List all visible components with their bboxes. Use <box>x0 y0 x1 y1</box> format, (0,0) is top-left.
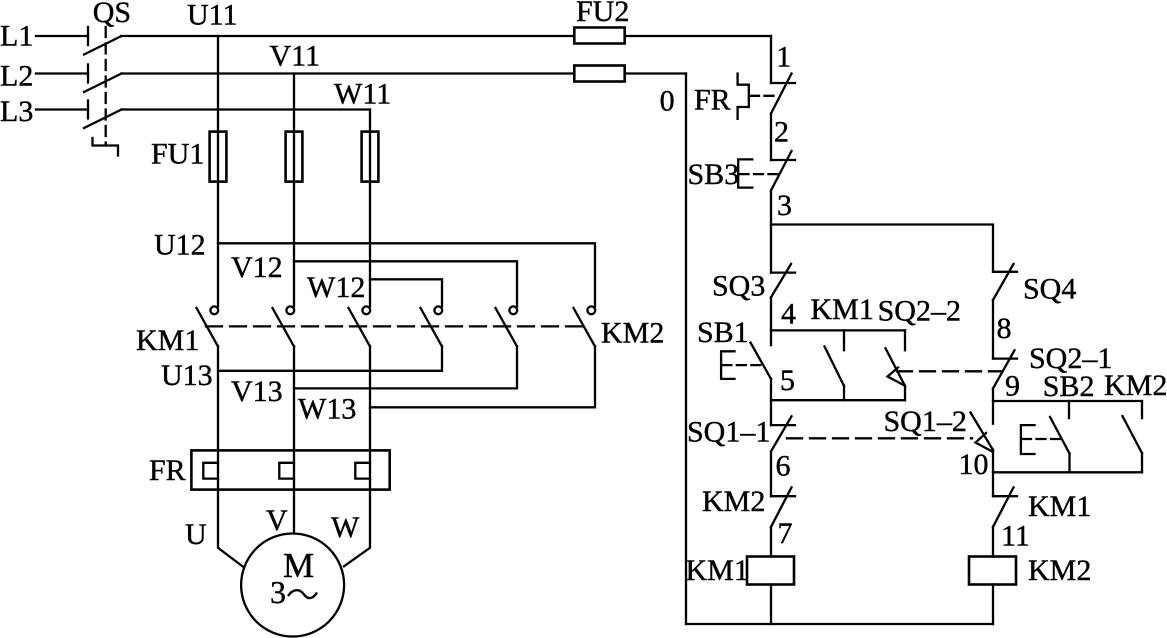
switch SQ1-1 NC blade <box>771 416 792 451</box>
svg-text:5: 5 <box>780 364 795 397</box>
svg-text:KM1: KM1 <box>1028 490 1091 523</box>
svg-text:8: 8 <box>997 312 1012 345</box>
contactor KM1 main contact W blade <box>349 308 371 346</box>
svg-text:KM1: KM1 <box>686 554 749 587</box>
svg-text:FR: FR <box>694 84 731 117</box>
svg-text:FU2: FU2 <box>576 0 629 28</box>
coil KM2 <box>969 557 1016 585</box>
svg-text:U: U <box>185 518 207 551</box>
wire V11 vertical <box>293 74 295 307</box>
svg-text:FR: FR <box>149 454 186 487</box>
wire W11 vertical <box>369 110 371 307</box>
svg-text:0: 0 <box>660 85 675 118</box>
switch SQ2-1 NC blade <box>993 350 1015 388</box>
wire parallel branch top (SB2/KM2) <box>993 400 1142 402</box>
QS pole 2 blade <box>84 74 122 93</box>
wire node 8 rail <box>992 300 994 359</box>
wire parallel branch top (KM1/SQ2-2) <box>771 329 905 331</box>
contact KM2 aux NO blade <box>1123 416 1143 453</box>
wire KM2 coil to bottom rail <box>992 585 994 625</box>
contactor KM2 main contact 4 blade <box>421 308 443 346</box>
switch SQ2-2 bottom wire <box>904 386 906 400</box>
contactor KM2 main contact 6 blade <box>574 308 596 346</box>
svg-text:SQ4: SQ4 <box>1023 273 1076 306</box>
svg-text:9: 9 <box>1005 370 1020 403</box>
contact FR NC fixed bar <box>771 82 795 84</box>
linkage SQ2 dashed <box>897 370 1001 372</box>
wire parallel branch bottom (SB2/KM2) <box>993 471 1142 473</box>
svg-text:L3: L3 <box>0 95 33 128</box>
QS pole 3 blade <box>84 110 122 129</box>
svg-text:V11: V11 <box>270 40 321 73</box>
wire node 4 rail <box>770 297 772 345</box>
wire U12 crossover to KM2 contact 6 <box>218 243 595 306</box>
svg-text:W13: W13 <box>298 393 356 426</box>
button SB3 linkage dashed <box>740 173 779 175</box>
wire node 6 rail <box>770 451 772 496</box>
switch SQ1-2 roller chevron <box>976 433 993 452</box>
contactor KM2 main contact 6 hinge circle <box>587 306 595 314</box>
wire KM1 coil to bottom rail <box>770 585 772 625</box>
QS pole 2 fixed contact tick <box>87 65 89 83</box>
svg-text:6: 6 <box>776 450 791 483</box>
button SB3 actuator <box>738 159 752 187</box>
wire phase V down to motor <box>293 346 295 533</box>
wire node 5 rail <box>770 379 772 425</box>
wire node 10 rail <box>992 450 994 497</box>
svg-text:SQ2–2: SQ2–2 <box>878 295 961 328</box>
fuse FU2 upper <box>625 35 771 37</box>
svg-text:W11: W11 <box>334 78 391 111</box>
switch SQ2-2 blade <box>886 348 906 386</box>
svg-text:SQ1–2: SQ1–2 <box>884 405 967 438</box>
contactor KM1 main contact V blade <box>273 308 295 346</box>
switch SQ2-2 top wire <box>904 330 906 350</box>
svg-text:3: 3 <box>777 189 792 222</box>
FR heater element U <box>203 463 218 479</box>
contact KM1 NC interlock blade <box>993 487 1014 527</box>
svg-text:1: 1 <box>776 41 791 74</box>
wire node0 rail <box>685 74 687 625</box>
svg-text:KM2: KM2 <box>601 317 664 350</box>
wire node 11 rail <box>992 527 994 557</box>
switch SQ3 NC fixed bar <box>771 271 795 273</box>
contactor KM1 main contact U blade <box>197 308 219 346</box>
svg-text:4: 4 <box>781 298 796 331</box>
contactor KM2 main contact 5 blade <box>496 308 518 346</box>
switch SQ1-1 NC fixed bar <box>771 424 795 426</box>
button SB1 linkage dashed <box>722 364 761 366</box>
motor M circle <box>241 534 344 637</box>
wire node 3 rail <box>770 191 772 273</box>
contact KM2 NC interlock blade <box>771 487 792 527</box>
svg-text:L1: L1 <box>0 20 33 53</box>
svg-text:11: 11 <box>1001 520 1030 553</box>
button SB2 actuator <box>1021 425 1035 454</box>
wire phase W down to motor <box>344 346 370 566</box>
thermal relay FR box <box>191 450 389 489</box>
wire U11 vertical <box>217 36 219 307</box>
switch SQ4 NC fixed bar <box>993 271 1017 273</box>
svg-text:7: 7 <box>778 517 793 550</box>
QS pole 1 fixed contact tick <box>87 27 89 45</box>
switch SQ3 NC blade <box>771 264 791 297</box>
wire U13 from KM2 contact 4 <box>218 346 442 370</box>
relay FR heater element symbol (control) <box>738 74 749 119</box>
contact KM1 aux NO bottom wire <box>843 386 845 400</box>
button SB2 NO blade <box>1050 417 1070 454</box>
QS pole 1 blade <box>84 36 122 55</box>
wire node1 rail top corner <box>770 36 772 83</box>
contactor KM1 main contact W hinge circle <box>362 306 370 314</box>
svg-text:SB2: SB2 <box>1043 370 1095 403</box>
wire W12 crossover to KM2 contact 4 <box>370 279 442 306</box>
contactor KM2 main contact 5 hinge circle <box>509 306 517 314</box>
svg-text:3: 3 <box>270 574 286 610</box>
svg-text:10: 10 <box>959 448 989 481</box>
relay FR linkage dashed <box>750 95 778 97</box>
wire L3 incoming <box>36 108 88 110</box>
svg-text:KM2: KM2 <box>1028 554 1091 587</box>
linkage SQ1 dashed <box>787 437 972 439</box>
fuse FU1 phase V <box>286 132 303 182</box>
switch SQ4 NC blade <box>993 264 1014 300</box>
svg-text:QS: QS <box>93 0 131 29</box>
svg-text:L2: L2 <box>0 60 33 93</box>
motor tilde <box>288 590 317 598</box>
wire L1 incoming <box>36 35 88 37</box>
svg-text:FU1: FU1 <box>151 138 204 171</box>
switch SQ2-1 NC fixed bar <box>993 357 1017 359</box>
svg-text:SQ3: SQ3 <box>712 270 765 303</box>
wire node 9 rail <box>992 389 994 424</box>
wire L2 incoming <box>36 72 88 74</box>
svg-text:KM2: KM2 <box>702 485 765 518</box>
FR heater element V <box>279 463 294 479</box>
button SB2 top wire <box>1068 401 1070 418</box>
QS handle <box>93 138 119 156</box>
button SB1 NO blade <box>751 343 772 379</box>
coil KM1 <box>747 557 794 585</box>
button SB2 linkage dashed <box>1022 438 1061 440</box>
svg-text:V12: V12 <box>231 251 283 284</box>
QS pole 3 fixed contact tick <box>87 101 89 119</box>
contact SB3 NC fixed bar <box>771 159 795 161</box>
svg-text:V13: V13 <box>231 375 283 408</box>
contact SB3 NC blade <box>771 151 792 191</box>
main contacts linkage dashed <box>206 325 585 327</box>
contactor KM2 main contact 4 hinge circle <box>434 306 442 314</box>
svg-text:V: V <box>266 504 288 537</box>
button SB1 actuator <box>721 351 734 379</box>
wire V12 crossover to KM2 contact 5 <box>294 261 517 306</box>
svg-text:KM1: KM1 <box>811 293 874 326</box>
wire phase U down to motor <box>218 346 243 566</box>
FR heater element W <box>355 463 370 479</box>
wire W13 from KM2 contact 6 <box>370 346 595 407</box>
contactor KM1 main contact U hinge circle <box>210 306 218 314</box>
contact KM2 NC interlock fixed bar <box>771 495 795 497</box>
svg-text:U13: U13 <box>161 359 213 392</box>
contact KM1 aux NO blade <box>825 346 845 386</box>
svg-text:M: M <box>283 546 314 585</box>
svg-text:KM1: KM1 <box>136 324 199 357</box>
wire node 2 <box>770 114 772 161</box>
contact KM1 aux NO top wire <box>843 330 845 350</box>
wire L3 to W11 <box>122 108 371 110</box>
svg-text:KM2: KM2 <box>1104 369 1167 402</box>
fuse FU1 phase U <box>210 132 227 182</box>
wire L2 to FU2 <box>122 72 575 74</box>
fuse FU2 lower <box>625 72 686 74</box>
svg-text:SQ1–1: SQ1–1 <box>687 416 770 449</box>
contact FR NC blade <box>771 74 792 114</box>
button SB2 bottom wire <box>1068 454 1070 473</box>
switch SQ2-2 roller chevron <box>888 368 905 386</box>
wire bottom rail <box>686 623 993 625</box>
svg-text:U11: U11 <box>187 0 238 32</box>
contact KM1 NC interlock fixed bar <box>993 495 1017 497</box>
wire L1 to FU2 <box>122 35 575 37</box>
switch SQ1-2 blade <box>971 413 994 451</box>
wire parallel branch bottom (KM1/SQ2-2) <box>771 399 905 401</box>
svg-text:W: W <box>331 511 360 544</box>
svg-text:SB1: SB1 <box>697 316 749 349</box>
svg-text:SB3: SB3 <box>688 158 740 191</box>
contactor KM1 main contact V hinge circle <box>286 306 294 314</box>
contact KM2 aux NO bottom wire <box>1141 453 1143 472</box>
QS linkage dashed <box>105 27 107 146</box>
fuse FU1 phase W <box>362 132 379 182</box>
svg-text:W12: W12 <box>307 271 365 304</box>
wire V13 from KM2 contact 5 <box>294 346 517 388</box>
svg-text:2: 2 <box>774 116 789 149</box>
wire branch to SQ4 <box>771 225 993 272</box>
wire node 7 rail <box>770 527 772 557</box>
contact KM2 aux NO top wire <box>1141 401 1143 418</box>
svg-text:U12: U12 <box>154 228 206 261</box>
